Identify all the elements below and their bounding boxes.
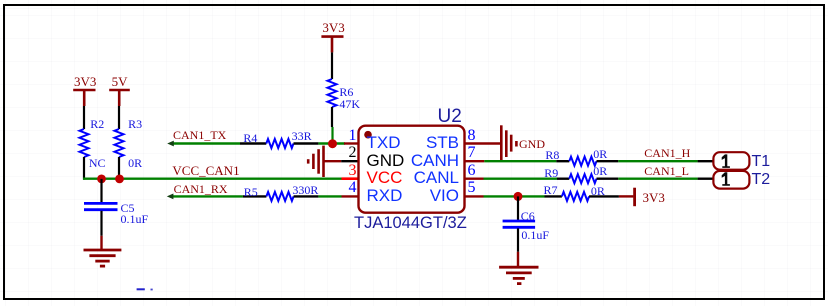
label 0.1uF (C6) [521, 229, 549, 241]
label 3V3 (left power) [74, 75, 96, 88]
wire R3 bottom lead (black) [118, 157, 120, 179]
label 330R [292, 184, 318, 196]
resistor R6 47K [328, 79, 337, 107]
wire CAN1_RX (green, with arrow) [171, 195, 243, 197]
power 3V3 (right, sideways bar) [633, 188, 636, 207]
label R2 [90, 118, 104, 130]
label T1 [752, 154, 771, 170]
node CAN1_TX arrowhead [167, 141, 174, 147]
wire pin7 stub (maroon) [465, 160, 485, 162]
label 0.1uF (C5) [121, 213, 149, 225]
wire R2 bottom lead (black) [83, 157, 85, 180]
node pin1 marker dot [364, 131, 372, 139]
connector T1 box [713, 152, 749, 170]
pin name CANH [390, 152, 459, 169]
pin name RXD [367, 187, 403, 204]
label U2 [438, 107, 462, 126]
wire R2 top lead (black) [83, 106, 85, 129]
label R5 [244, 186, 258, 198]
pin number 8 [468, 128, 478, 144]
wire pin2 stub (black) [341, 160, 358, 162]
wire R5 right lead (black) [294, 195, 319, 197]
label NC [89, 157, 106, 169]
label R9 [544, 167, 558, 179]
wire R8 left lead (black) [556, 160, 569, 162]
label 5V [112, 75, 128, 88]
resistor R2 NC [80, 129, 89, 157]
wire C5 to ground (maroon) [100, 236, 102, 249]
wire R4 left lead (black) [240, 142, 266, 144]
resistor R7 0R [562, 192, 589, 201]
wire pin5 stub (maroon) [465, 195, 484, 197]
resistor R9 0R [569, 174, 596, 183]
wire R5 to pin4 (green) [318, 195, 341, 197]
wire into T2 (black) [698, 177, 714, 179]
label 3V3 (right power) [643, 191, 665, 204]
wire C6 bottom lead (black) [517, 228, 519, 251]
label 0R (R3) [128, 157, 142, 169]
label R4 [243, 132, 257, 144]
label 0R (R7) [591, 185, 605, 197]
label 0R (R9) [593, 165, 607, 177]
pin number 4 [347, 180, 357, 196]
power 3V3 (far left) [73, 90, 95, 106]
pin number 7 [468, 145, 478, 161]
wire pin1 stub (maroon) [344, 142, 359, 144]
wire R3 top lead (black) [118, 106, 120, 129]
wire R7 right lead (black) [589, 195, 619, 197]
label R6 [339, 86, 353, 98]
resistor R4 33R [266, 139, 293, 148]
wire pin7 to R8 (green) [484, 160, 556, 162]
pin number 6 [468, 163, 478, 179]
wire R4 right lead (black) [294, 142, 319, 144]
label VCC_CAN1 [172, 164, 239, 177]
ground GND (sideways, at pin8) [501, 125, 516, 160]
wire pin8 to GND (maroon) [465, 142, 502, 144]
ground (below C6) [499, 267, 538, 283]
wire C5 top lead (black vertical) [100, 179, 102, 203]
label CAN1_RX [174, 183, 228, 195]
pin name CANL [390, 169, 459, 186]
capacitor C5 0.1uF [84, 203, 118, 209]
wire C5 bottom lead (black) [100, 211, 102, 236]
resistor R8 0R [569, 157, 596, 166]
wire into T1 (black) [698, 160, 714, 162]
pin name TXD [367, 134, 401, 151]
wire R6 to pin1 junction (green) [331, 127, 333, 145]
label 33R [292, 130, 312, 142]
wire R7 left lead (black) [545, 195, 562, 197]
junction dot (R3 tap) [115, 175, 124, 184]
wire R6 top lead (black) [331, 52, 333, 79]
label R7 [544, 184, 558, 196]
label CAN1_H [644, 147, 690, 159]
ground (sideways, at pin2) [308, 146, 323, 177]
decorative cropped text bottom [137, 288, 145, 290]
junction dot (C6 tap) [514, 192, 523, 201]
wire R7 to 3V3 (maroon) [619, 195, 634, 197]
pin name VCC [367, 169, 403, 186]
wire R9 right lead (black) [597, 177, 619, 179]
ground (below C5) [84, 250, 122, 266]
wire pin5 to R7 (green) [484, 195, 545, 197]
label 47K [339, 98, 360, 110]
wire net VCC_CAN1 (green horizontal) [83, 177, 342, 179]
wire CAN1_L (green) [618, 177, 697, 179]
wire pin6 to R9 (green) [484, 177, 558, 179]
connector T1 pin number 1 (glyph) [722, 154, 730, 168]
wire pin2 to ground (maroon) [325, 160, 342, 162]
capacitor C6 0.1uF [503, 221, 535, 227]
label R3 [128, 118, 142, 130]
label 0R (R8) [593, 148, 607, 160]
wire CAN1_TX (green, with arrow) [171, 142, 240, 144]
label C5 [121, 202, 135, 214]
pin number 3 [347, 163, 357, 179]
junction dot (C5 tap) [97, 175, 106, 184]
wire CAN1_H (green) [618, 160, 697, 162]
label 3V3 (top power) [322, 21, 344, 34]
pin number 1 [347, 128, 357, 144]
wire R4 to pin1 (green) [318, 142, 345, 144]
wire pin6 stub (maroon) [465, 177, 484, 179]
wire pin4 stub (maroon) [342, 195, 359, 197]
node CAN1_RX arrowhead [167, 194, 174, 200]
wire R5 left lead (black) [243, 195, 267, 197]
wire R8 right lead (black) [597, 160, 619, 162]
label TJA1044GT/3Z [354, 215, 467, 232]
wire C6 top lead (black vertical) [517, 196, 519, 220]
wire R9 left lead (black) [557, 177, 569, 179]
resistor R3 0R [115, 129, 124, 157]
label CAN1_TX [173, 129, 226, 141]
label T2 [752, 172, 771, 188]
junction dot (pin1 / R6) [328, 139, 337, 148]
IC U2 TJA1044GT/3Z body [359, 126, 465, 213]
wire pin3 stub (bright red) [342, 177, 359, 180]
label R8 [545, 149, 559, 161]
label C6 [521, 210, 535, 222]
wire C6 to ground (maroon) [517, 252, 519, 266]
pin number 2 [347, 145, 357, 161]
connector T2 pin number 1 (glyph) [722, 172, 730, 186]
connector T2 box [713, 171, 749, 189]
pin name VIO [390, 187, 459, 204]
pin number 5 [468, 180, 478, 196]
pin name STB [390, 134, 459, 151]
pin name GND [367, 152, 405, 169]
label CAN1_L [644, 165, 689, 177]
power 5V [109, 90, 130, 106]
power 3V3 (top, above R6) [321, 37, 343, 53]
label GND (net, right of pin8 ground) [519, 138, 545, 150]
resistor R5 330R [266, 192, 293, 201]
wire R6 bottom lead (black) [331, 107, 333, 127]
